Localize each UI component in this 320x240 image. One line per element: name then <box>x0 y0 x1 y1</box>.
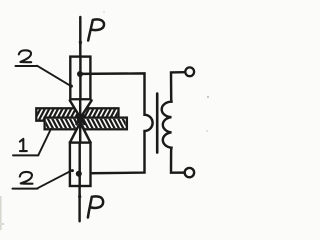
electrode 2 bottom (body) <box>70 143 91 186</box>
label 2 top <box>19 50 31 62</box>
label P top <box>88 19 104 40</box>
force line P top <box>79 17 81 56</box>
transformer secondary winding and leads <box>162 72 185 173</box>
underline label 2 top <box>16 65 38 67</box>
specimen 1 lower plate <box>42 115 135 132</box>
leader line label 2 top <box>37 66 71 86</box>
cone interior mask bottom <box>70 119 91 143</box>
scan speckles <box>0 11 209 230</box>
contact node in specimen centre <box>77 117 83 123</box>
label P bottom <box>88 196 103 217</box>
specimen 1 upper plate <box>34 105 127 122</box>
output terminal bottom <box>185 168 194 177</box>
leader dot label 2 bottom <box>71 169 74 172</box>
leader line label 2 bottom <box>38 170 72 188</box>
transformer core <box>156 94 159 153</box>
output terminal top <box>185 67 194 76</box>
label 1 <box>20 139 27 151</box>
axis inside bottom electrode <box>78 143 80 186</box>
leader dot label 2 top <box>70 85 73 88</box>
underline label 2 bottom <box>13 188 38 190</box>
cone tip of bottom electrode <box>70 116 91 143</box>
force line P bottom <box>78 186 80 221</box>
underline label 1 <box>13 154 38 156</box>
electrode 2 top (body) <box>70 57 90 100</box>
node top electrode <box>77 71 83 77</box>
cone tip of top electrode <box>70 100 92 124</box>
wire: top node to transformer primary loop <box>79 73 153 173</box>
arrowhead bottom force <box>78 191 82 198</box>
arrowhead top force <box>79 42 83 50</box>
label 2 bottom <box>20 172 33 184</box>
node bottom electrode <box>76 171 82 177</box>
axis through specimen crossing <box>79 99 81 143</box>
cone interior mask top <box>70 100 92 118</box>
leader line label 1 <box>38 129 51 155</box>
axis inside top electrode <box>79 57 81 99</box>
